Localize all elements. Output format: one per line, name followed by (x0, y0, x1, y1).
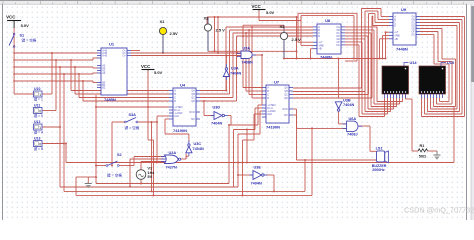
wire net y25.2 (243, 25, 284, 36)
wire vertical x60 down (59, 126, 61, 187)
wire U4 QB to U8 (200, 30, 313, 94)
svg-text:1: 1 (39, 126, 41, 130)
wire X3 stem (283, 40, 285, 60)
wire U3E out (266, 175, 274, 191)
wire U2A out to U3C (179, 141, 189, 160)
wire net y58.5 (284, 58, 386, 60)
wire U3B out to U6A (339, 112, 347, 124)
svg-text:U3C: U3C (194, 142, 202, 146)
wire U2A-U3C link (186, 156, 189, 159)
wire U14 dp to R1 (406, 94, 419, 151)
probe X1 (159, 19, 178, 36)
svg-text:CLK: CLK (267, 113, 272, 116)
wire S3A right to U4 (138, 116, 170, 164)
wire U7 QB to U9 (293, 11, 389, 92)
svg-text:U4: U4 (180, 83, 186, 88)
AND gate U5A 7408N (237, 47, 256, 65)
wire U4 QC to U8 (200, 33, 313, 98)
inverter U3B 7404N (335, 99, 354, 112)
svg-text:U13: U13 (34, 136, 40, 140)
power VCC1 top-left (6, 15, 29, 29)
buzzer LS1 (372, 146, 389, 172)
svg-text:OG: OG (411, 34, 415, 37)
switch S3A (124, 113, 139, 130)
svg-text:7404N: 7404N (211, 122, 222, 126)
svg-text:VCC: VCC (141, 64, 151, 69)
svg-text:7404N: 7404N (193, 147, 204, 151)
wire S3A left (111, 122, 125, 167)
wire U1 outB y53 (131, 52, 241, 54)
watermark (404, 206, 474, 215)
wire X1 stem (162, 35, 164, 54)
wire branch b3 y74 (13, 73, 97, 75)
wire V1 top to U2A (141, 162, 164, 171)
wire U13 out (42, 73, 65, 144)
svg-text:U8: U8 (325, 18, 331, 23)
svg-text:键 = 空格: 键 = 空格 (107, 173, 122, 178)
svg-text:7404N: 7404N (251, 182, 262, 186)
wire x153.5 down (148, 107, 155, 196)
wire VCC1 bus vertical (13, 28, 15, 81)
wire U8 RBI over top (301, 16, 355, 60)
vertical scrollbar (471, 4, 474, 220)
wire nest y140 (243, 114, 263, 140)
svg-text:S1: S1 (20, 34, 25, 38)
wire U9 RBI (382, 36, 390, 60)
svg-text:2.5 V: 2.5 V (216, 28, 226, 33)
svg-text:CSDN @mQ_70773215: CSDN @mQ_70773215 (404, 206, 474, 215)
wire long y162.5 (65, 107, 454, 164)
comparator U1 7485N (97, 42, 131, 103)
svg-text:~BI: ~BI (318, 48, 322, 51)
wire U4 QA to U8 (200, 27, 313, 91)
wire U1 outC y55.5 (131, 55, 241, 57)
AND gate U6A 7408J (343, 117, 363, 137)
seven-segment display U15 (419, 61, 454, 98)
inverter U3A 7404N (223, 64, 241, 80)
wire bottom y187 (60, 186, 238, 188)
svg-text:U12: U12 (34, 120, 40, 124)
wire U7 QC to U9 (293, 14, 389, 95)
svg-text:5.0V: 5.0V (154, 70, 163, 75)
svg-text:5.0V: 5.0V (21, 23, 30, 28)
wire U4 D feed (82, 80, 169, 101)
wire R1 right (428, 150, 437, 152)
counter U7 74190N (262, 80, 293, 130)
wire U4 load y107 (95, 106, 169, 108)
switch S1 (9, 33, 37, 47)
sheet right border (466, 4, 468, 220)
svg-text:U9: U9 (401, 7, 407, 12)
decoder U8 7448N (313, 18, 345, 60)
svg-text:0: 0 (39, 109, 41, 113)
svg-text:U3A: U3A (231, 67, 239, 71)
sheet right margin (467, 4, 474, 220)
svg-text:MX: MX (284, 114, 288, 117)
wire branch b2 y67 (13, 66, 97, 68)
wire U3D out nest (228, 105, 262, 125)
wire U8 BI down (310, 49, 314, 60)
svg-text:D: D (174, 100, 176, 103)
svg-text:U2A: U2A (169, 151, 177, 155)
wire branch b1 y60 (13, 58, 97, 61)
wire U3D in (204, 101, 214, 116)
wire U4 B feed (74, 66, 169, 94)
wire U3E in (237, 174, 253, 176)
wire vertical x96 (95, 95, 97, 184)
wire U7 QA to U9 (293, 9, 389, 89)
svg-text:X2: X2 (204, 16, 210, 21)
svg-text:7448N: 7448N (396, 47, 408, 52)
svg-text:OG: OG (336, 44, 340, 47)
wire bottom y195.4 (76, 128, 312, 196)
svg-text:U5A: U5A (243, 47, 251, 51)
wire bottom y183.5 (96, 183, 229, 185)
probe X3 (280, 24, 302, 42)
wire U7 QD to U9 (293, 16, 389, 98)
svg-text:7408J: 7408J (347, 133, 358, 137)
wire x151.5 down (151, 122, 153, 192)
wire U7 B feed (245, 32, 262, 91)
wire U3C out to U4 clk (165, 119, 189, 141)
wire U5A out (254, 54, 264, 105)
svg-text:50Ω: 50Ω (419, 155, 426, 159)
svg-text:7404N: 7404N (343, 103, 354, 107)
wire VCC2 drop (147, 71, 149, 108)
svg-text:7408N: 7408N (242, 61, 253, 65)
svg-text:2.5V: 2.5V (170, 31, 179, 36)
svg-text:U11: U11 (34, 103, 40, 107)
svg-text:CLK: CLK (174, 115, 179, 118)
inverter U3D 7404N (211, 106, 229, 126)
svg-text:键 = B: 键 = B (34, 146, 44, 151)
wire vertical x64 down (63, 143, 65, 192)
wire U3A stem (225, 55, 227, 92)
svg-text:RCO: RCO (282, 108, 287, 111)
svg-text:X3: X3 (280, 24, 286, 29)
wire U9 BI (379, 39, 390, 60)
svg-text:S2: S2 (117, 153, 122, 157)
wire nest x229 (228, 124, 230, 184)
decoder U9 7448N (389, 7, 420, 52)
svg-text:2.5 V: 2.5 V (292, 37, 302, 42)
wire U7 C feed (248, 29, 262, 95)
svg-text:键 = A: 键 = A (34, 130, 44, 135)
svg-text:QD: QD (191, 100, 195, 103)
wire bus bottom to U10 (13, 80, 33, 94)
wire X3 top stem (283, 25, 285, 32)
svg-text:U7: U7 (274, 80, 280, 85)
wire U8 LT over top (298, 13, 357, 61)
wire U1 outA (131, 50, 140, 52)
wire U12 out (42, 66, 61, 127)
svg-text:D: D (267, 97, 269, 100)
wire nest y129.5 (234, 108, 263, 131)
svg-text:5V: 5V (148, 175, 153, 179)
power VCC2 mid-left (141, 64, 163, 75)
svg-text:VCC: VCC (6, 15, 16, 20)
wire nest y134 (238, 111, 262, 134)
svg-text:MX: MX (191, 118, 195, 121)
digital constant U12 (34, 120, 44, 135)
probe X2 (204, 16, 226, 33)
wire U11 out (42, 59, 57, 111)
wire X2 top stem (207, 17, 209, 24)
inverter U3C 7404N (186, 141, 204, 157)
svg-text:键 = 空格: 键 = 空格 (22, 38, 37, 43)
wire X2 net y51.3 (208, 50, 298, 53)
svg-text:VCC: VCC (252, 4, 262, 9)
wire nest x247 (246, 130, 248, 164)
clock source V1 (136, 167, 154, 180)
svg-text:5.0V: 5.0V (266, 10, 275, 15)
svg-text:0: 0 (39, 142, 41, 146)
wire U6A in2 (293, 115, 347, 129)
svg-text:74190N: 74190N (266, 125, 280, 130)
svg-text:键 = 0: 键 = 0 (34, 113, 43, 118)
svg-text:7427N: 7427N (166, 166, 177, 170)
wire U7 D feed (251, 26, 262, 98)
svg-text:D: D (318, 35, 320, 38)
svg-text:7404N: 7404N (230, 72, 241, 76)
wire branch b0 y53 (13, 52, 97, 54)
svg-text:键 = 1: 键 = 1 (34, 97, 43, 102)
inverter U3E 7404N (250, 166, 268, 186)
svg-text:QD: QD (284, 97, 288, 100)
wire U4 QD to U8 (200, 36, 313, 102)
wire bottom y191.4 (64, 159, 306, 192)
ground right of R1 (434, 151, 441, 160)
digital constant U11 (34, 103, 43, 118)
svg-text:U3B: U3B (343, 99, 351, 103)
svg-text:键 = 空格: 键 = 空格 (125, 125, 140, 130)
svg-text:S3A: S3A (129, 113, 137, 117)
wire branch b4 y81 (14, 81, 97, 83)
wire U10 out (42, 52, 53, 94)
wire U4 A feed (70, 59, 169, 91)
top ruler bar (0, 0, 474, 4)
wire VCC3 route (259, 11, 301, 59)
resistor R1 50ohm (418, 144, 428, 159)
wire U6A out to buzzer (359, 126, 377, 151)
svg-text:U1: U1 (109, 42, 115, 47)
svg-text:U15: U15 (447, 61, 454, 65)
svg-text:RCO: RCO (189, 111, 194, 114)
svg-text:1: 1 (39, 93, 41, 97)
svg-text:U10: U10 (34, 87, 40, 91)
wire x242.5 segment (242, 140, 244, 195)
wire bus U8 to display U14 (345, 27, 403, 117)
seven-segment display U14 (382, 61, 417, 98)
counter U4 74190N (169, 83, 200, 134)
wire U9 LT (385, 31, 390, 59)
sheet left border (2, 4, 4, 220)
wire X2 stem (207, 31, 209, 51)
svg-text:U3D: U3D (213, 106, 221, 110)
svg-text:74190N: 74190N (173, 128, 187, 133)
wire U4 C feed (78, 73, 169, 98)
svg-text:X1: X1 (160, 19, 166, 24)
svg-text:7485N: 7485N (104, 97, 116, 102)
svg-text:U14: U14 (410, 61, 418, 65)
svg-text:U3E: U3E (254, 166, 262, 170)
wire bus U9 to display U15 (420, 17, 465, 117)
power VCC3 top-middle (252, 4, 275, 15)
svg-text:D: D (394, 25, 396, 28)
switch S2 (106, 153, 122, 178)
svg-text:A>B: A>B (102, 55, 107, 58)
wire S2 right to U2A (119, 157, 164, 166)
wire x238 segment (237, 134, 239, 187)
svg-text:2000Hz: 2000Hz (372, 168, 385, 172)
wire ground stem (88, 176, 97, 184)
svg-text:U6A: U6A (349, 117, 357, 121)
svg-text:R1: R1 (420, 144, 425, 148)
svg-text:LS1: LS1 (376, 146, 383, 150)
wire net y17 (207, 16, 297, 54)
wire S2 left (95, 165, 106, 167)
ground bottom-left (85, 184, 92, 189)
digital constant U10 (34, 87, 43, 102)
wire nest x233.5 down (233, 130, 235, 187)
digital constant U13 (34, 136, 44, 151)
wire U2A in2 (129, 159, 164, 188)
wire U7 rco to buzzer (293, 109, 377, 160)
wire V1 bottom (140, 179, 142, 184)
svg-text:~BI: ~BI (394, 38, 398, 41)
wire U7 A feed (242, 35, 262, 88)
NOR gate U2A 7427N (161, 151, 181, 170)
wire U3B in (338, 59, 340, 99)
svg-text:7448N: 7448N (320, 55, 332, 60)
